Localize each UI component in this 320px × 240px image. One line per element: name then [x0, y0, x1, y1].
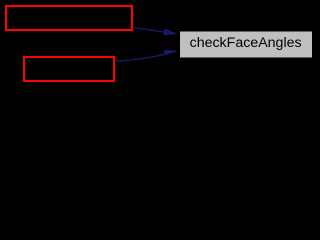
svg-text:checkFaceAngles: checkFaceAngles [190, 35, 302, 51]
